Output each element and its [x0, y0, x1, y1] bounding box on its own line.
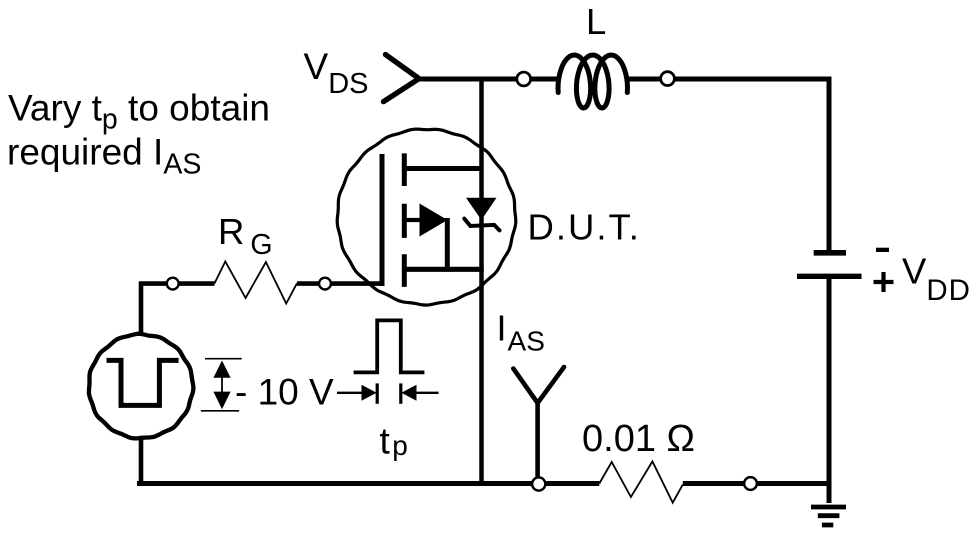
tp pulse waveform	[354, 320, 425, 372]
svg-text:Vary tp to obtain: Vary tp to obtain	[8, 88, 270, 136]
node on top rail left of L	[517, 72, 531, 86]
body diode triangle	[466, 198, 497, 220]
mosfet body-source vertical	[445, 218, 450, 269]
node left of RG	[167, 278, 179, 290]
mosfet drain bar	[403, 166, 482, 171]
wire bottom rail	[137, 481, 832, 486]
wire pulse generator to RG node	[141, 284, 215, 333]
node right of shunt resistor	[744, 477, 757, 490]
svg-text:0.01 Ω: 0.01 Ω	[582, 418, 695, 460]
inductor L coil	[558, 55, 628, 108]
tp right arrowhead	[401, 385, 416, 401]
battery plus sign	[874, 272, 894, 292]
DUT enclosure circle	[337, 129, 516, 305]
svg-text:L: L	[586, 1, 606, 42]
wire top rail from Vds probe tip to top-right corner	[418, 77, 829, 82]
V_DS probe arrow	[384, 55, 420, 102]
10V bottom tick	[201, 410, 239, 412]
tp left arrow line	[337, 392, 363, 394]
svg-text:IAS: IAS	[497, 308, 545, 357]
wire right vertical lower (battery to ground)	[827, 279, 832, 504]
tp right bar	[399, 383, 402, 403]
wire RG to gate	[297, 281, 380, 286]
svg-text:VDS: VDS	[304, 46, 369, 100]
tp left arrowhead	[362, 385, 377, 401]
node on top rail right of L	[661, 72, 675, 86]
svg-text:VDD: VDD	[902, 251, 971, 307]
battery minus sign	[876, 248, 889, 252]
resistor 0.01 ohm zigzag	[599, 461, 683, 502]
tp right arrow line	[415, 392, 439, 394]
svg-text:D.U.T.: D.U.T.	[528, 207, 641, 248]
10V top tick	[205, 358, 242, 360]
svg-text:required IAS: required IAS	[7, 131, 201, 180]
node at I_AS stem	[532, 477, 545, 490]
body diode zener bar	[464, 219, 499, 231]
mosfet channel dashes	[402, 153, 407, 287]
mosfet body stub	[402, 218, 421, 222]
wire pulse generator bottom leg	[139, 440, 144, 484]
tp left bar	[376, 383, 379, 403]
mosfet source bar	[402, 267, 484, 272]
10V arrowhead up	[213, 361, 230, 378]
wire drain-source vertical through DUT	[479, 79, 484, 484]
10V double arrow shaft	[221, 368, 223, 402]
10V arrowhead down	[213, 392, 230, 410]
svg-text:tp: tp	[380, 421, 408, 462]
svg-text:RG: RG	[218, 211, 273, 261]
ground symbol	[811, 507, 846, 525]
resistor RG zigzag	[215, 262, 297, 304]
pulse generator circle	[89, 334, 193, 439]
battery bottom (positive) plate	[797, 274, 862, 279]
node right of RG	[319, 278, 331, 290]
battery top (negative) plate	[814, 250, 846, 256]
pulse generator waveform	[107, 360, 179, 405]
mosfet body arrow	[420, 204, 448, 237]
svg-text:- 10 V: - 10 V	[235, 372, 334, 413]
wire right vertical upper (corner to battery)	[827, 77, 832, 251]
I_AS arrow	[513, 367, 564, 403]
mosfet gate bar	[380, 154, 385, 286]
